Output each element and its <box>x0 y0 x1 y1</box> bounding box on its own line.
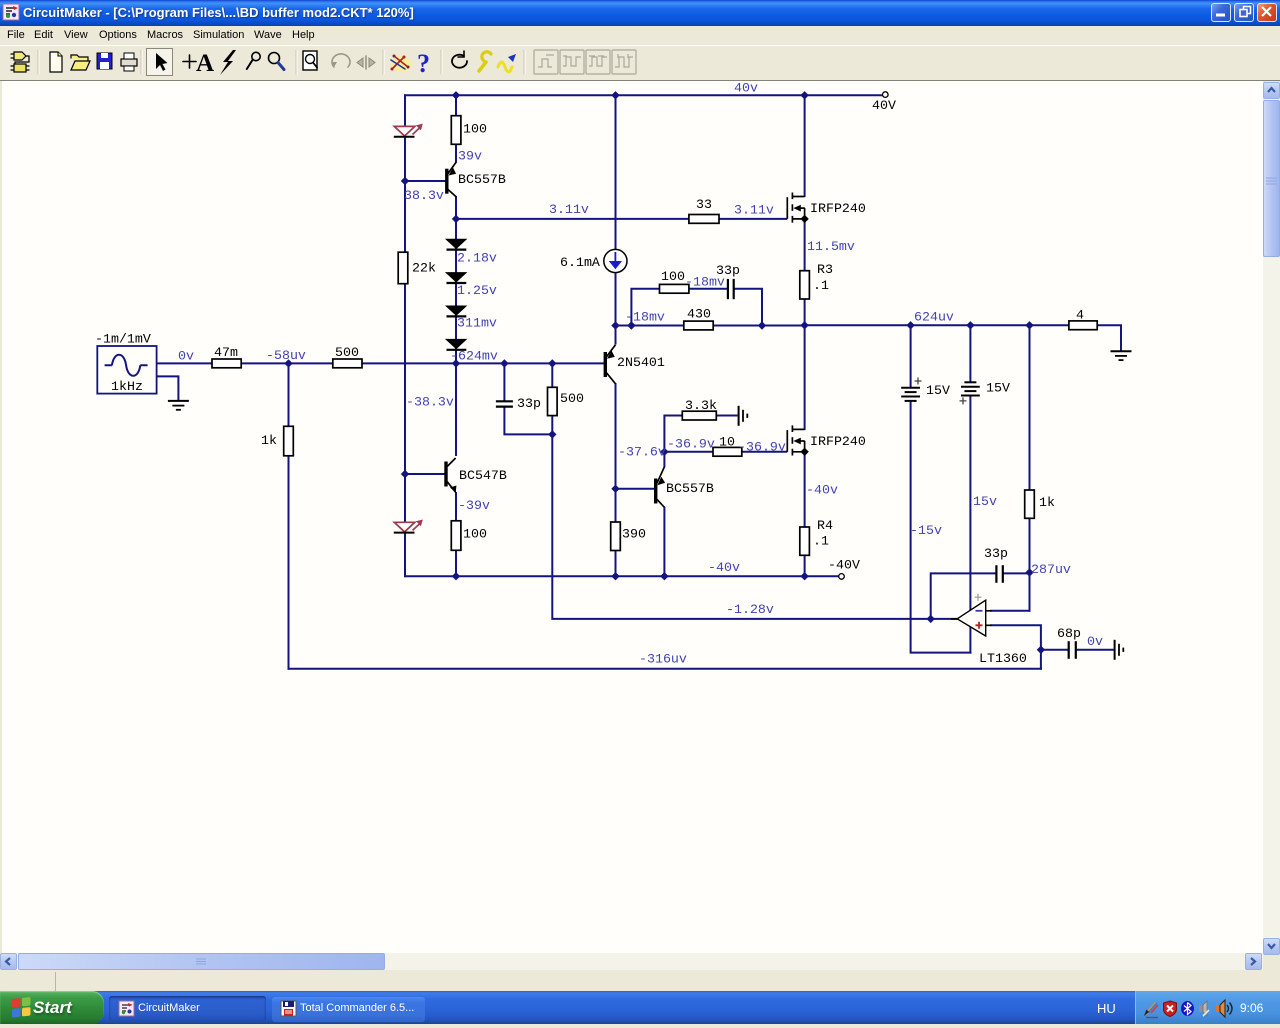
svg-text:500: 500 <box>560 391 584 406</box>
print <box>121 59 137 66</box>
svg-text:IRFP240: IRFP240 <box>810 434 866 449</box>
svg-text:0v: 0v <box>178 349 194 364</box>
transistor 2N5401 (PNP) <box>605 345 615 384</box>
capacitor 33p shunt <box>496 401 513 406</box>
sine probe <box>498 62 512 72</box>
vertical scrollbar <box>1263 82 1280 955</box>
wire BC557B collector to 3.11v node <box>455 196 457 220</box>
resistor R4 .1 <box>800 527 810 555</box>
junction 33p/500 shunt bottom <box>548 430 556 438</box>
capacitor 33p feedback <box>996 565 1002 583</box>
svg-text:2N5401: 2N5401 <box>617 355 665 370</box>
wire 100/33p loop right side <box>735 289 763 327</box>
junction -37.6v node <box>660 448 668 456</box>
junction output node at battery2 <box>966 321 974 329</box>
svg-text:15V: 15V <box>926 383 950 398</box>
wire 3.11v gate line <box>456 218 787 220</box>
mosfet IRFP240 bottom <box>787 425 809 456</box>
wire -40V bottom rail <box>404 575 839 577</box>
junction 40v rail at current source <box>611 91 619 99</box>
svg-text:287uv: 287uv <box>1031 562 1071 577</box>
battery 15V left <box>901 378 921 401</box>
terminal -40V <box>839 574 845 580</box>
wire op-amp V- pin <box>969 626 971 654</box>
tray icon 5: speaker orange <box>1216 1005 1220 1012</box>
connector icon <box>14 52 26 60</box>
wire 100 bottom resistor to rail <box>455 550 457 577</box>
svg-text:BC557B: BC557B <box>666 481 714 496</box>
wire left rail 22k to BC547B base junction <box>404 284 406 523</box>
wire 68p right lead to ground <box>1076 649 1114 651</box>
junction input at 500 shunt <box>548 359 556 367</box>
svg-text:-36.9v: -36.9v <box>667 437 715 452</box>
capacitor 68p <box>1069 641 1076 659</box>
resistor 1k feedback <box>1025 490 1035 518</box>
pointer button pressed <box>147 49 173 76</box>
ground below source <box>168 401 189 410</box>
svg-text:-39v: -39v <box>458 498 490 513</box>
tray icon 3: bluetooth <box>1181 1001 1194 1016</box>
svg-text:500: 500 <box>335 345 359 360</box>
junction output node at R3 <box>800 321 808 329</box>
wire BC557B2 base node to 390 <box>615 489 617 523</box>
diode D4 <box>446 273 466 283</box>
wire top rail horizontal 40v <box>404 94 883 96</box>
resistor 4 output <box>1069 321 1097 330</box>
svg-text:-18mv: -18mv <box>625 310 665 325</box>
svg-text:1k: 1k <box>1039 495 1055 510</box>
wire BC557B2 collector to rail <box>663 507 665 577</box>
wire 100 top resistor column upper <box>455 95 457 116</box>
svg-text:100: 100 <box>463 122 487 137</box>
transistor BC547B (NPN) <box>446 458 456 493</box>
svg-text:-40v: -40v <box>708 560 740 575</box>
svg-text:1kHz: 1kHz <box>111 379 143 394</box>
zoom <box>269 53 280 64</box>
resistor 390 <box>611 522 621 551</box>
wire 1k input resistor bottom to -316uv line <box>288 456 290 670</box>
resistor 47m <box>212 359 241 368</box>
svg-text:40V: 40V <box>872 98 896 113</box>
svg-text:22k: 22k <box>412 261 436 276</box>
wire 390 bottom to rail <box>615 551 617 578</box>
wire R4 bottom to -40V rail <box>804 556 806 578</box>
junction 430 line at 615 <box>611 321 619 329</box>
svg-text:.1: .1 <box>813 278 829 293</box>
junction BC547B base node <box>401 470 409 478</box>
junction BC557B2 base node <box>611 485 619 493</box>
wire 500 shunt bottom to op-amp output line <box>552 416 958 619</box>
wire 1k input resistor top <box>288 363 290 426</box>
junction 3.11v node <box>452 215 460 223</box>
svg-text:-1m/1mV: -1m/1mV <box>95 332 151 347</box>
junction -40v rail at R4 <box>800 572 808 580</box>
scope buttons (disabled) <box>534 50 636 74</box>
svg-text:15V: 15V <box>986 381 1010 396</box>
mirror <box>365 56 367 69</box>
junction -40v rail at BC557B2 collector <box>660 572 668 580</box>
wire diode chain column <box>455 219 457 365</box>
wire battery1 bottom to op-amp V- <box>911 401 972 653</box>
wire IRFP240 top source to R3 <box>804 219 806 271</box>
wire battery2 top lead <box>969 325 971 382</box>
svg-text:-36.9v: -36.9v <box>738 440 786 455</box>
svg-text:LT1360: LT1360 <box>979 651 1027 666</box>
junction output node at 1k <box>1025 321 1033 329</box>
junction 430 line at loop left <box>627 321 635 329</box>
wire left rail LED2 to bottom corner <box>404 533 406 578</box>
wire 287uv to inverting input <box>990 610 1031 612</box>
wire -316uv bottom line <box>288 668 1042 670</box>
current source 6.1mA <box>604 249 627 272</box>
svg-text:430: 430 <box>687 307 711 322</box>
resistor 100 top <box>451 116 461 145</box>
wire current source column top <box>615 95 617 250</box>
svg-text:100: 100 <box>661 269 685 284</box>
resistor 100 bottom-left <box>451 521 461 551</box>
svg-text:-38.3v: -38.3v <box>406 395 454 410</box>
wire 1k feedback bottom to 287uv node <box>1029 518 1031 612</box>
svg-text:-624mv: -624mv <box>450 349 498 364</box>
junction 430 line at loop right <box>758 321 766 329</box>
wire IRFP240 bottom source to R4 <box>804 452 806 528</box>
reset <box>452 55 467 68</box>
svg-text:390: 390 <box>622 527 646 542</box>
wire BC557B2 base <box>616 488 655 490</box>
wire 430 line <box>616 325 806 327</box>
resistor R3 .1 <box>800 271 810 299</box>
svg-text:33p: 33p <box>517 396 541 411</box>
wire IRFP240 top drain <box>804 94 806 197</box>
junction 40v rail at 456 <box>452 91 460 99</box>
wire noninverting input to 68p node <box>990 625 1041 670</box>
svg-text:1.25v: 1.25v <box>457 283 497 298</box>
capacitor 33p loop <box>728 279 734 299</box>
wire source ground stub <box>156 376 178 401</box>
resistor 22k <box>398 252 408 284</box>
junction input at 1k <box>284 359 292 367</box>
toolbar icons drawn in svg <box>0 45 1280 81</box>
transistor BC557B top (PNP) <box>447 162 457 197</box>
svg-text:10: 10 <box>719 435 735 450</box>
wire 3.3k right lead to ground <box>716 415 738 417</box>
wire left rail LED1 to base junction <box>404 137 406 252</box>
terminal +40V <box>883 92 889 98</box>
resistor 100 loop <box>660 284 689 293</box>
diode D6 <box>446 339 466 349</box>
junction 287uv node <box>1025 568 1033 576</box>
svg-text:33: 33 <box>696 197 712 212</box>
ground at output 4 <box>1111 351 1132 360</box>
wire 2N5401 collector down to BC557B2 base node <box>615 383 617 490</box>
svg-text:3.11v: 3.11v <box>734 203 774 218</box>
wrench <box>479 62 486 71</box>
svg-text:4: 4 <box>1076 308 1084 323</box>
wire 10 gate line <box>664 451 787 453</box>
wire output node line 624uv <box>805 325 1121 351</box>
svg-text:-18mv: -18mv <box>685 275 725 290</box>
svg-text:15v: 15v <box>973 494 997 509</box>
svg-text:R4: R4 <box>817 518 833 533</box>
wire IRFP240 bottom drain to output node <box>804 324 806 430</box>
diode D3 <box>446 239 466 249</box>
wire 3.3k left lead <box>664 416 682 453</box>
lightning <box>220 50 236 75</box>
wire current source to 2N5401 emitter <box>615 273 617 345</box>
op-amp LT1360 <box>951 594 992 636</box>
tray icon 4: speaker gray <box>1199 1005 1203 1012</box>
resistor 33 <box>689 215 719 224</box>
wire 100/33p loop left vertical <box>631 289 727 327</box>
open <box>71 55 88 61</box>
probe <box>252 52 260 60</box>
svg-text:-316uv: -316uv <box>639 652 687 667</box>
svg-text:3.11v: 3.11v <box>549 202 589 217</box>
wire R3 bottom to output node <box>804 299 806 326</box>
svg-text:311mv: 311mv <box>457 316 497 331</box>
circuitmaker task icon <box>119 1001 134 1016</box>
junction -40v rail at 456 <box>452 572 460 580</box>
diode D5 <box>446 306 466 316</box>
svg-text:-40v: -40v <box>806 483 838 498</box>
wire left rail top segment <box>404 94 406 127</box>
wire BC547B emitter to 100 resistor <box>455 492 457 521</box>
svg-text:47m: 47m <box>214 345 238 360</box>
horizontal scrollbar <box>0 953 1263 970</box>
wire 500 shunt top lead <box>551 363 553 387</box>
windows flag <box>12 997 31 1017</box>
svg-text:39v: 39v <box>458 149 482 164</box>
wire 456 column to BC547B collector <box>455 363 457 456</box>
plus <box>183 55 196 68</box>
svg-text:.1: .1 <box>813 534 829 549</box>
wire input line from source to 2N5401 base <box>156 362 605 364</box>
junction input at 33p shunt <box>500 359 508 367</box>
svg-text:100: 100 <box>463 527 487 542</box>
junction BC557B base <box>401 177 409 185</box>
junction output node at battery1 <box>906 321 914 329</box>
junction 68p node <box>1037 646 1045 654</box>
resistor 10 <box>713 447 742 456</box>
svg-text:2.18v: 2.18v <box>457 251 497 266</box>
window chrome <box>0 0 1280 26</box>
svg-text:-1.28v: -1.28v <box>726 602 774 617</box>
wires tool <box>391 56 411 72</box>
svg-text:3.3k: 3.3k <box>685 398 717 413</box>
svg-text:624uv: 624uv <box>914 310 954 325</box>
svg-text:40v: 40v <box>734 81 758 96</box>
ground rotated at 68p <box>1115 640 1124 660</box>
svg-text:BC547B: BC547B <box>459 468 507 483</box>
new <box>50 52 62 72</box>
svg-text:-15v: -15v <box>910 523 942 538</box>
tray icon 1: pen <box>1144 1003 1158 1018</box>
tray icon 2: red shield <box>1164 1001 1177 1017</box>
junction -40v rail at 390 <box>611 572 619 580</box>
resistor 500 input <box>333 359 362 368</box>
svg-text:68p: 68p <box>1057 626 1081 641</box>
svg-text:6.1mA: 6.1mA <box>560 255 600 270</box>
battery 15V right (flipped) <box>960 382 980 404</box>
rotate (gray) <box>332 54 350 67</box>
resistor 500 shunt <box>548 387 558 415</box>
svg-text:-40V: -40V <box>828 558 860 573</box>
LED D2 <box>394 520 423 533</box>
wire BC557B2 emitter lead <box>663 452 665 467</box>
wire 33p shunt bottom lead <box>504 407 553 435</box>
resistor 430 <box>684 321 713 330</box>
svg-text:IRFP240: IRFP240 <box>810 201 866 216</box>
status band + taskbar <box>0 970 1280 991</box>
wire 68p left lead <box>1041 649 1069 651</box>
LED D1 <box>394 124 423 137</box>
wire BC557B base <box>405 180 446 182</box>
wire battery2 bottom to op-amp V+ pin <box>969 396 971 611</box>
resistor 3.3k <box>682 411 716 420</box>
wire 33p shunt top lead <box>503 363 505 401</box>
resistor 1k input <box>284 426 294 456</box>
wire BC547B base <box>405 473 445 475</box>
wire 100 resistor to BC557B emitter <box>455 144 457 162</box>
save <box>97 53 112 69</box>
svg-text:11.5mv: 11.5mv <box>807 239 855 254</box>
wire feedback 33p left <box>931 573 997 620</box>
svg-text:R3: R3 <box>817 262 833 277</box>
transistor BC557B bottom (PNP) <box>656 467 665 508</box>
svg-text:-37.6v: -37.6v <box>618 445 666 460</box>
signal source V1 <box>97 346 156 394</box>
wire feedback 33p right <box>1003 572 1029 574</box>
junction 40v rail at IRFP240 drain <box>800 91 808 99</box>
wire battery V+ lead <box>910 325 912 387</box>
svg-text:38.3v: 38.3v <box>404 188 444 203</box>
junction input at diode chain <box>452 359 460 367</box>
total commander task icon (floppy) <box>281 1001 296 1016</box>
svg-text:BC557B: BC557B <box>458 172 506 187</box>
svg-text:-58uv: -58uv <box>266 348 306 363</box>
ground rotated at 3.3k <box>739 406 748 426</box>
svg-text:0v: 0v <box>1087 634 1103 649</box>
wire 1k feedback top lead <box>1029 325 1031 490</box>
mosfet IRFP240 top <box>787 193 809 224</box>
page zoom <box>303 51 317 70</box>
junction op-amp output node <box>927 615 935 623</box>
svg-text:1k: 1k <box>261 433 277 448</box>
svg-text:33p: 33p <box>984 546 1008 561</box>
